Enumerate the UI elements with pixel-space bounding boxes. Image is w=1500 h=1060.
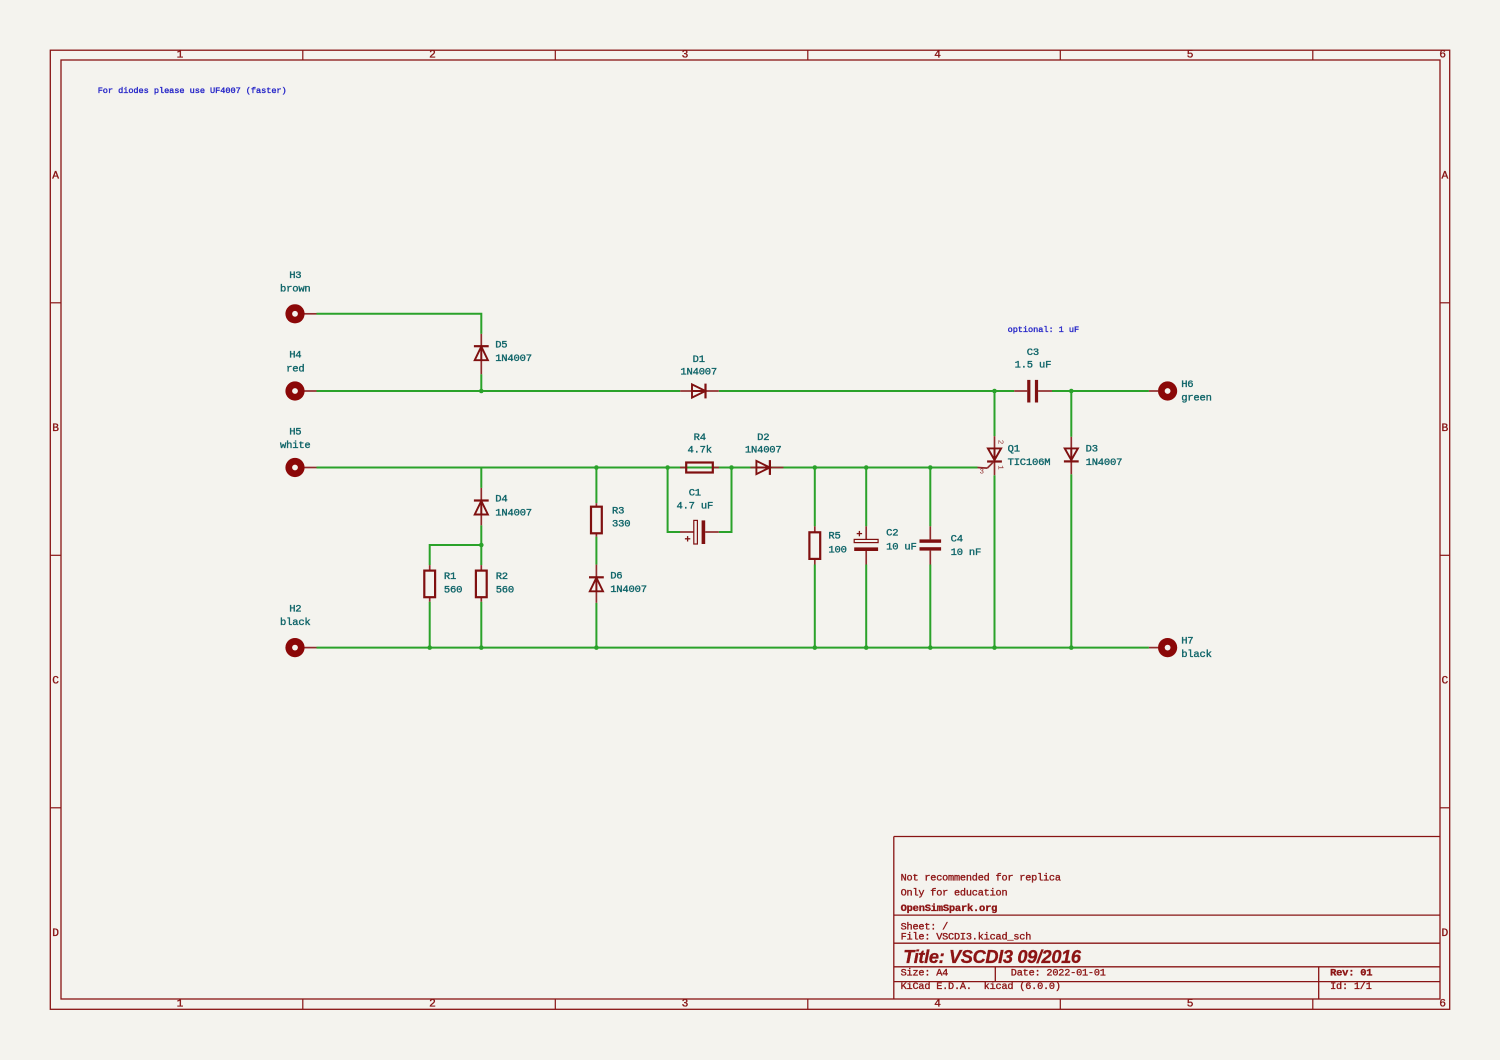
wire D4 cathode down to junction: [480, 525, 482, 545]
wire C3 right to H6: [1052, 390, 1149, 392]
pin C2 top: [865, 526, 867, 539]
junction D5/H4: [479, 389, 484, 394]
frame row tick right: [1440, 554, 1450, 556]
svg-text:560: 560: [496, 584, 514, 596]
svg-text:3: 3: [682, 998, 689, 1010]
junction R1 bottom: [427, 645, 432, 650]
svg-text:Rev: 01: Rev: 01: [1330, 968, 1372, 980]
pin H3: [303, 313, 317, 315]
pin D6 anode: [595, 565, 597, 577]
label D3: [1086, 443, 1123, 469]
svg-text:H2: H2: [289, 604, 301, 616]
frame column tick top: [1059, 50, 1061, 60]
svg-text:brown: brown: [280, 284, 311, 296]
svg-text:R1: R1: [444, 571, 456, 583]
svg-text:5: 5: [1187, 998, 1194, 1010]
svg-text:D5: D5: [495, 340, 507, 352]
wire C4 bottom to ground rail: [929, 565, 931, 648]
wire to C2 top: [865, 468, 867, 527]
junction R4 left: [665, 465, 670, 470]
svg-text:D1: D1: [693, 354, 705, 366]
label D6: [610, 571, 647, 596]
svg-text:4.7 uF: 4.7 uF: [676, 501, 713, 513]
pin D1 anode: [680, 390, 692, 392]
junction R4 right: [729, 465, 734, 470]
pin Q1 anode: [994, 436, 996, 448]
frame column tick top: [807, 50, 809, 60]
svg-text:OpenSimSpark.org: OpenSimSpark.org: [901, 903, 998, 915]
frame column tick bottom: [554, 999, 556, 1009]
svg-text:1: 1: [177, 50, 184, 62]
svg-text:1N4007: 1N4007: [495, 353, 532, 365]
wire R4 left down to C1 plus: [668, 468, 680, 533]
label Q1: [1008, 443, 1051, 469]
junction R5 top: [813, 465, 818, 470]
svg-text:2: 2: [996, 440, 1004, 445]
wire H4 net down to Q1 anode: [994, 391, 996, 436]
wire C2 bottom to ground rail: [865, 565, 867, 648]
svg-text:D: D: [1442, 928, 1449, 940]
frame row tick left: [50, 807, 61, 809]
svg-text:1N4007: 1N4007: [680, 367, 717, 379]
pin R5 bottom: [814, 559, 816, 565]
label C1: [676, 488, 713, 513]
pin R2 top: [480, 565, 482, 571]
wire white net to R3 top: [595, 468, 597, 504]
label C3: [1015, 347, 1052, 372]
diode D1: [692, 384, 706, 399]
resistor R1: [424, 571, 435, 598]
capacitor C4: [920, 539, 942, 550]
wire junction to R4 left pin: [668, 467, 680, 469]
svg-text:D: D: [52, 928, 59, 940]
pin D1 cathode: [706, 390, 719, 392]
svg-text:D4: D4: [495, 494, 507, 506]
junction C4 bottom: [928, 645, 933, 650]
pin R2 bottom: [480, 597, 482, 602]
title block outline: [894, 837, 1440, 1000]
pin C1 plus: [680, 531, 694, 533]
diode D5: [474, 346, 489, 360]
junction C4 top: [928, 465, 933, 470]
label H3: [280, 270, 311, 296]
wire junction to R2 top: [480, 545, 482, 565]
wire H5 to Q1 gate: [317, 467, 978, 469]
svg-text:KiCad E.D.A. kicad (6.0.0): KiCad E.D.A. kicad (6.0.0): [901, 981, 1061, 993]
svg-text:5: 5: [1187, 50, 1194, 62]
diode D3: [1064, 448, 1079, 461]
svg-text:4: 4: [934, 998, 941, 1010]
svg-text:green: green: [1181, 393, 1212, 405]
svg-text:D6: D6: [610, 571, 622, 583]
svg-text:10 nF: 10 nF: [951, 547, 982, 559]
svg-text:1.5 uF: 1.5 uF: [1015, 360, 1052, 372]
frame column tick top: [302, 50, 304, 60]
svg-text:R5: R5: [828, 531, 840, 543]
frame row tick right: [1440, 302, 1450, 304]
diode D6: [589, 577, 604, 591]
pin D4 anode: [480, 488, 482, 500]
label C2: [886, 527, 917, 553]
svg-text:TIC106M: TIC106M: [1008, 457, 1051, 469]
svg-text:Title: VSCDI3 09/2016: Title: VSCDI3 09/2016: [903, 947, 1082, 967]
wire to R5 top: [814, 468, 816, 527]
pin R3 bottom: [595, 533, 597, 537]
label H5: [280, 427, 311, 453]
svg-text:6: 6: [1439, 998, 1446, 1010]
frame column tick bottom: [807, 999, 809, 1009]
svg-text:100: 100: [828, 544, 846, 556]
svg-text:C1: C1: [689, 488, 701, 500]
capacitor C3: [1027, 380, 1038, 403]
svg-text:red: red: [286, 363, 304, 375]
connector H2: [285, 638, 304, 657]
svg-text:For diodes please use UF4007 (: For diodes please use UF4007 (faster): [98, 86, 287, 96]
connector H7: [1158, 638, 1177, 657]
resistor R5: [809, 532, 820, 559]
wire R3 bottom to D6 anode: [595, 537, 597, 565]
junction Q1 anode: [992, 389, 997, 394]
svg-text:560: 560: [444, 584, 462, 596]
wire C1 minus up to R4 right: [719, 468, 732, 533]
resistor R3: [591, 507, 602, 534]
label D2: [745, 432, 782, 457]
frame row tick left: [50, 554, 61, 556]
wire D6 cathode to ground rail: [595, 603, 597, 648]
pin H2: [303, 647, 317, 649]
svg-text:Size: A4: Size: A4: [901, 967, 949, 979]
svg-text:H7: H7: [1181, 636, 1193, 648]
svg-text:1: 1: [996, 465, 1004, 470]
pin C4 bottom: [929, 551, 931, 565]
pin D2 anode: [750, 467, 756, 469]
label C4: [951, 534, 982, 559]
svg-text:B: B: [1442, 423, 1449, 435]
junction R5 bottom: [813, 645, 818, 650]
pin R1 top: [429, 565, 431, 571]
frame column tick bottom: [1312, 999, 1314, 1009]
svg-text:C2: C2: [886, 527, 898, 539]
svg-text:3: 3: [682, 50, 689, 62]
svg-text:2: 2: [429, 998, 436, 1010]
pin D3 cathode: [1070, 462, 1072, 475]
capacitor C1 (polarized): [685, 520, 705, 544]
svg-text:H5: H5: [289, 427, 301, 439]
svg-text:10 uF: 10 uF: [886, 541, 917, 553]
svg-text:File: VSCDI3.kicad_sch: File: VSCDI3.kicad_sch: [901, 931, 1032, 943]
pin H7: [1149, 647, 1158, 649]
wire H3 to D5 anode: [317, 314, 482, 334]
wire R1 bottom to ground rail: [429, 602, 431, 648]
svg-text:6: 6: [1439, 50, 1446, 62]
resistor R2: [476, 571, 487, 598]
svg-text:C4: C4: [951, 534, 963, 546]
svg-text:1N4007: 1N4007: [495, 507, 532, 519]
pin D5 cathode: [480, 361, 482, 375]
label H6: [1181, 379, 1212, 405]
svg-text:C3: C3: [1027, 347, 1039, 359]
pin R1 bottom: [429, 597, 431, 602]
junction R3 top: [594, 465, 599, 470]
resistor R4: [686, 463, 713, 473]
pin R4 left: [680, 467, 686, 469]
pin C4 top: [929, 526, 931, 539]
svg-text:H6: H6: [1181, 379, 1193, 391]
label R2: [496, 571, 514, 596]
svg-text:B: B: [52, 423, 59, 435]
svg-text:A: A: [52, 171, 59, 183]
svg-text:Id: 1/1: Id: 1/1: [1330, 981, 1372, 993]
pin C3 right: [1038, 390, 1052, 392]
pin D4 cathode: [480, 513, 482, 525]
pin Q1 cathode: [994, 462, 996, 476]
pin C3 left: [1014, 390, 1027, 392]
svg-text:1: 1: [177, 998, 184, 1010]
wire D5 cathode to H4 net: [480, 374, 482, 391]
label R4: [687, 432, 711, 457]
frame column tick bottom: [302, 999, 304, 1009]
wire junction to R1 top: [430, 545, 482, 565]
junction D3 anode: [1069, 389, 1074, 394]
wire R4 right pin to junction: [713, 467, 732, 469]
wire R2 bottom to ground rail: [480, 602, 482, 648]
svg-text:R2: R2: [496, 571, 508, 583]
svg-text:1N4007: 1N4007: [610, 584, 647, 596]
wire D1 cathode to C3 left: [719, 390, 1014, 392]
label H4: [286, 350, 304, 376]
frame column tick bottom: [1059, 999, 1061, 1009]
pin H6: [1149, 390, 1158, 392]
svg-text:R3: R3: [612, 505, 624, 517]
svg-text:Only for education: Only for education: [901, 888, 1008, 900]
svg-text:white: white: [280, 440, 311, 452]
svg-text:optional: 1 uF: optional: 1 uF: [1008, 325, 1080, 335]
label R3: [612, 505, 630, 530]
svg-text:4: 4: [934, 50, 941, 62]
junction D3 bottom: [1069, 645, 1074, 650]
capacitor C2 (polarized): [854, 531, 878, 551]
junction Q1 cathode: [992, 645, 997, 650]
frame column tick top: [1312, 50, 1314, 60]
label H2: [280, 604, 311, 629]
connector H3: [285, 304, 304, 323]
label R1: [444, 571, 462, 596]
svg-text:D3: D3: [1086, 443, 1098, 455]
label H7: [1181, 636, 1212, 662]
junction R1/R2/D4: [479, 543, 484, 548]
junction D6 bottom: [594, 645, 599, 650]
pin R5 top: [814, 526, 816, 532]
wire D2 cathode to Q1 gate: [783, 467, 977, 469]
svg-text:1N4007: 1N4007: [1086, 457, 1123, 469]
wire white net to D4 anode: [480, 468, 482, 488]
label D5: [495, 340, 532, 365]
connector H5: [285, 458, 304, 477]
svg-text:D2: D2: [757, 432, 769, 444]
svg-text:black: black: [1181, 649, 1212, 661]
svg-text:H3: H3: [289, 270, 301, 282]
wire H4 to D1 anode: [317, 390, 681, 392]
junction C2 top: [864, 465, 869, 470]
frame row tick left: [50, 302, 61, 304]
wire Q1 cathode to ground rail: [994, 475, 996, 647]
diode D4: [474, 501, 489, 515]
svg-text:black: black: [280, 617, 311, 629]
pin D5 anode: [480, 334, 482, 346]
svg-text:R4: R4: [694, 432, 706, 444]
pin H4: [303, 390, 317, 392]
diode D2: [756, 460, 770, 475]
svg-text:Not recommended for replica: Not recommended for replica: [901, 872, 1061, 884]
svg-text:Q1: Q1: [1008, 443, 1020, 455]
svg-text:330: 330: [612, 519, 630, 531]
junction C2 bottom: [864, 645, 869, 650]
junction R2 bottom: [479, 645, 484, 650]
pin R3 top: [595, 503, 597, 507]
frame row tick right: [1440, 807, 1450, 809]
pin D2 cathode: [770, 467, 784, 469]
connector H6: [1158, 381, 1177, 400]
pin C1 minus: [705, 531, 719, 533]
pin R4 right: [713, 467, 719, 469]
pin H5: [303, 467, 317, 469]
wire to D2 anode: [732, 467, 751, 469]
label D4: [495, 494, 532, 520]
svg-text:C: C: [1442, 676, 1449, 688]
svg-text:3: 3: [980, 469, 985, 477]
svg-text:1N4007: 1N4007: [745, 445, 782, 457]
svg-text:H4: H4: [289, 350, 301, 362]
frame column tick top: [554, 50, 556, 60]
wire to C4 top: [929, 468, 931, 527]
wire D3 cathode to ground rail: [1070, 474, 1072, 647]
pin D6 cathode: [595, 590, 597, 603]
thyristor Q1 TIC106M: [978, 448, 1002, 468]
svg-text:2: 2: [429, 50, 436, 62]
svg-text:A: A: [1442, 171, 1449, 183]
wire ground rail H2 to H7: [317, 647, 1149, 649]
svg-text:C: C: [52, 676, 59, 688]
label D1: [680, 354, 717, 378]
pin C2 bottom: [865, 551, 867, 565]
pin D3 anode: [1070, 437, 1072, 449]
svg-text:Date: 2022-01-01: Date: 2022-01-01: [1011, 968, 1106, 979]
wire green net down to D3 anode: [1070, 391, 1072, 437]
connector H4: [285, 381, 304, 400]
wire R5 bottom to ground rail: [814, 565, 816, 648]
label R5: [828, 531, 846, 557]
svg-text:4.7k: 4.7k: [687, 445, 711, 457]
